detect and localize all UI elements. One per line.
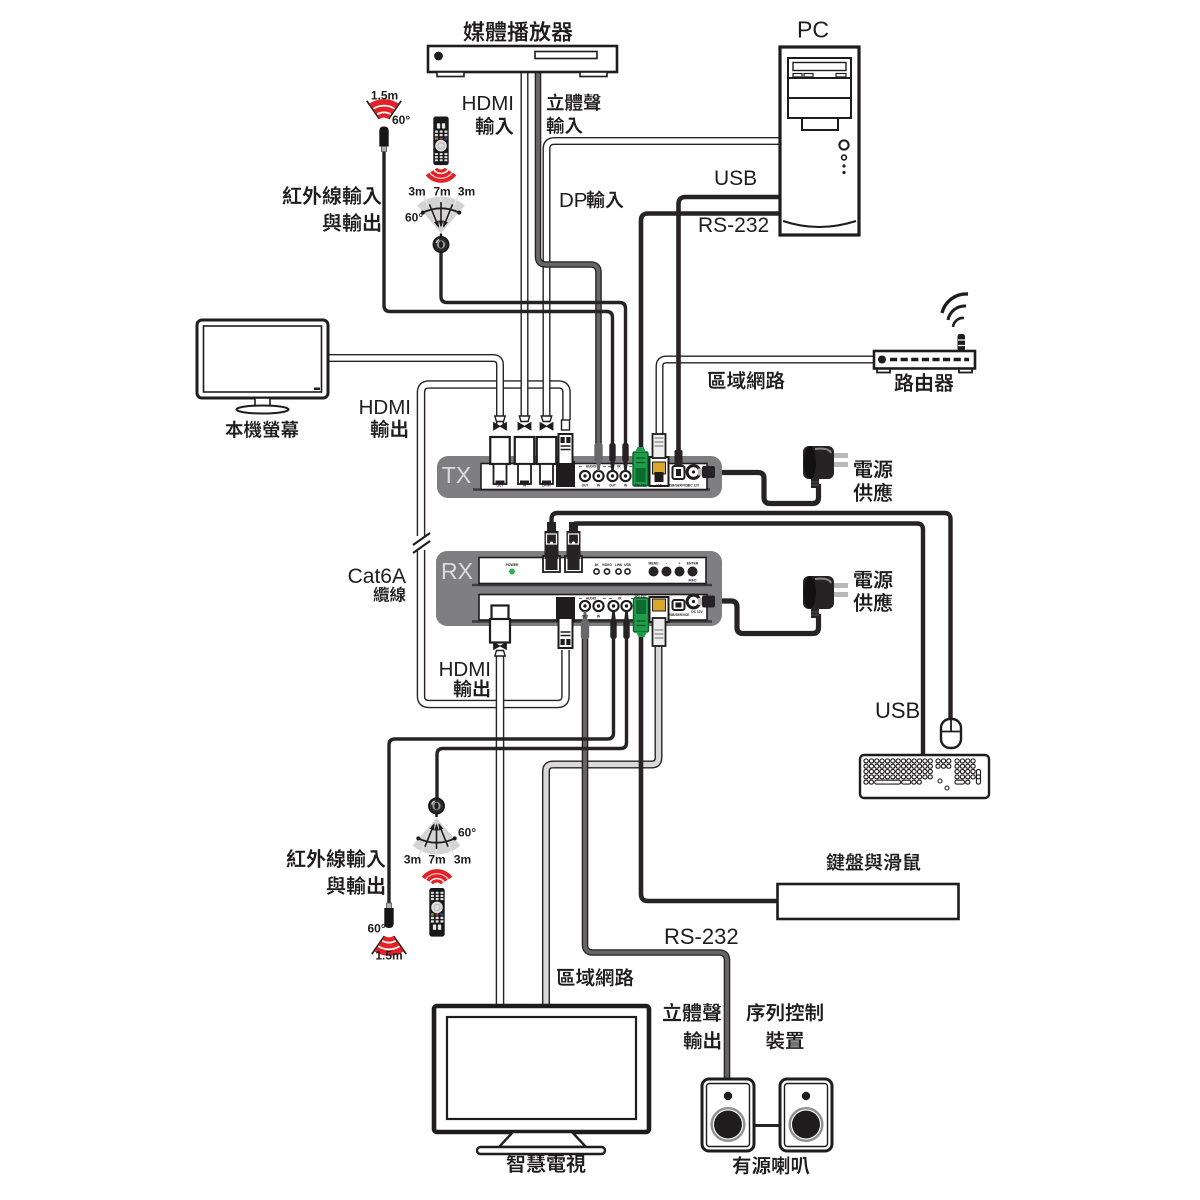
TX audio IN jack with plug <box>593 471 603 481</box>
svg-text:RS-232: RS-232 <box>664 924 739 949</box>
svg-text:+: + <box>679 562 681 566</box>
wire LAN TX to router <box>660 360 876 435</box>
svg-text:ENTER: ENTER <box>687 562 699 566</box>
TX audio OUT jack <box>580 471 590 481</box>
svg-text:60°: 60° <box>405 211 423 225</box>
RX IR IN jack with plug <box>621 601 631 611</box>
wire stereo output to speakers <box>585 634 727 1080</box>
label local monitor <box>226 421 243 438</box>
svg-text:VIDEO: VIDEO <box>602 563 612 567</box>
wire Cat6A link TX to RX <box>421 385 567 705</box>
svg-text:60°: 60° <box>458 826 476 840</box>
TX panel <box>473 488 710 491</box>
TX Cat6A OUT port and plug <box>556 420 575 487</box>
RX rear panel <box>472 620 712 623</box>
svg-text:OUT: OUT <box>582 615 589 619</box>
svg-text:MENU: MENU <box>649 562 660 566</box>
svg-text:AUDIO: AUDIO <box>586 465 597 469</box>
wire RS-232 RX to serial control device <box>641 635 778 901</box>
svg-text:OUT: OUT <box>609 484 616 488</box>
label IR in/out bottom <box>287 849 306 867</box>
svg-text:LINK: LINK <box>615 563 623 567</box>
top IR receiver <box>433 234 448 253</box>
RX RS-232 terminal block <box>634 598 649 637</box>
svg-text:-: - <box>666 562 667 566</box>
PC tower <box>780 47 859 235</box>
wire DP input from PC <box>547 141 780 420</box>
RX audio IN jack <box>593 601 603 611</box>
svg-text:INFO: INFO <box>688 579 696 583</box>
svg-text:7m: 7m <box>428 853 445 867</box>
svg-text:1.5m: 1.5m <box>371 89 398 103</box>
TX power adapter <box>803 446 848 488</box>
svg-text:USB: USB <box>624 563 631 567</box>
wire USB RX to mouse <box>552 513 951 721</box>
wire IR receiver to TX IR IN <box>441 250 626 446</box>
wire RX IR IN from bottom receiver <box>437 635 627 800</box>
svg-text:DP/IN: DP/IN <box>542 484 551 488</box>
wifi router <box>874 334 975 373</box>
wire stereo input from media player <box>538 71 599 448</box>
local monitor <box>197 320 328 414</box>
RX Cat6A port and plug <box>556 597 575 648</box>
svg-text:PC: PC <box>797 17 829 43</box>
serial control device box <box>778 884 959 919</box>
TX IR IN jack with plug <box>620 471 630 481</box>
TX HDMI IN plug <box>515 416 535 484</box>
TX IR OUT jack with plug <box>607 471 617 481</box>
RX USB plug 1 <box>543 522 560 572</box>
media player box <box>428 46 617 77</box>
svg-text:USB: USB <box>714 167 757 190</box>
svg-text:OUT: OUT <box>497 484 504 488</box>
wire RX IR OUT to bottom emitter <box>389 635 614 906</box>
mouse <box>941 719 961 748</box>
label active speakers <box>733 1156 751 1174</box>
svg-text:DC 12V: DC 12V <box>688 484 700 488</box>
wire LAN RX to TV <box>546 645 659 1008</box>
svg-text:OUT: OUT <box>582 484 589 488</box>
label stereo input <box>547 93 564 110</box>
svg-text:USB: USB <box>875 698 920 723</box>
svg-text:7m: 7m <box>433 185 450 199</box>
bottom gray receiver fan <box>413 818 461 854</box>
RX DC 12V jack with plug <box>687 595 715 608</box>
TX RS-232 terminal block <box>633 447 648 486</box>
RX HDMI OUT port and plug <box>490 606 510 657</box>
label smart TV <box>507 1154 525 1173</box>
label keyboard mouse <box>827 853 845 871</box>
svg-text:CAT6A/OUT: CAT6A/OUT <box>556 484 574 488</box>
RX power adapter <box>803 576 848 618</box>
svg-text:3m: 3m <box>458 185 475 199</box>
svg-text:3m: 3m <box>454 853 471 867</box>
smart TV <box>434 1006 649 1154</box>
wire RS-232 from PC to TX <box>641 214 779 453</box>
top remote IR waves <box>427 169 454 181</box>
top remote control <box>433 117 448 166</box>
wire HDMI output RX to TV <box>496 653 505 1008</box>
RX buttons <box>649 562 699 583</box>
cable break marks on Cat6A run <box>412 533 430 553</box>
svg-text:RS-232: RS-232 <box>698 214 769 237</box>
svg-text:RS-232: RS-232 <box>635 484 646 488</box>
bottom IR receiver <box>429 798 444 817</box>
top IR emitter <box>379 127 388 152</box>
svg-text:DC 12V: DC 12V <box>691 610 703 614</box>
RX USB service port <box>673 600 685 610</box>
wire USB from PC to TX <box>679 197 780 450</box>
label LAN bottom <box>557 969 575 986</box>
svg-text:RX: RX <box>441 558 473 584</box>
TX port labels <box>497 465 700 488</box>
RX audio OUT jack with plug <box>580 601 590 611</box>
TX unit body <box>437 456 722 498</box>
svg-text:HDMI: HDMI <box>439 658 491 681</box>
wire HDMI input from media player <box>521 71 529 420</box>
wire TX power cable <box>712 473 819 504</box>
label serial control device <box>746 1003 764 1021</box>
router wifi waves <box>942 294 968 327</box>
bottom IR emitter red fan <box>372 936 406 954</box>
svg-text:3m: 3m <box>408 185 425 199</box>
RX USB plug 2 <box>565 522 582 572</box>
TX HDMI OUT plug <box>490 416 510 484</box>
bottom IR emitter <box>384 903 393 928</box>
bottom remote IR waves <box>423 871 450 883</box>
svg-text:POWER: POWER <box>506 563 519 567</box>
active speaker left <box>702 1079 754 1151</box>
wire RX power cable <box>712 601 819 634</box>
label TX power supply <box>854 460 872 478</box>
top gray receiver fan <box>417 197 465 233</box>
svg-text:HDMI: HDMI <box>462 92 514 115</box>
svg-text:USB/SERVICE: USB/SERVICE <box>668 484 690 488</box>
label IR in/out top <box>283 186 302 204</box>
bottom remote control <box>429 888 444 937</box>
svg-text:AUDIO: AUDIO <box>586 597 597 601</box>
svg-text:TX: TX <box>442 462 471 488</box>
keyboard <box>860 755 989 798</box>
wire HDMI out to local monitor <box>328 358 500 428</box>
svg-text:60°: 60° <box>368 922 386 936</box>
svg-text:DP: DP <box>559 189 587 212</box>
svg-text:4K: 4K <box>594 563 599 567</box>
svg-text:3m: 3m <box>404 853 421 867</box>
wire USB RX to keyboard <box>574 524 924 758</box>
speaker link wire <box>754 1124 781 1127</box>
RX IR OUT jack with plug <box>608 601 618 611</box>
top IR emitter red fan <box>367 101 401 119</box>
active speaker right <box>780 1079 832 1151</box>
RX port labels <box>582 595 704 619</box>
RX status LEDs <box>594 563 631 567</box>
label LAN top <box>708 372 726 389</box>
label router <box>895 373 914 392</box>
wire IR emitter to TX IR OUT <box>384 148 613 446</box>
RX unit body <box>436 551 722 626</box>
TX DP IN plug <box>537 416 557 484</box>
label stereo output <box>663 1003 681 1021</box>
label media player <box>463 21 484 42</box>
TX LAN port with plug <box>650 434 669 486</box>
RX LAN port with plug <box>650 597 669 646</box>
svg-text:60°: 60° <box>392 113 410 127</box>
svg-text:HDMI: HDMI <box>359 396 411 419</box>
svg-text:USB/SERVICE: USB/SERVICE <box>668 613 690 617</box>
svg-text:RS-232: RS-232 <box>635 595 646 599</box>
svg-text:LAN: LAN <box>656 484 663 488</box>
svg-text:Cat6A: Cat6A <box>348 565 406 588</box>
svg-text:1.5m: 1.5m <box>375 949 402 963</box>
RX front panel <box>472 584 712 587</box>
TX DC 12V jack with plug <box>687 466 715 479</box>
TX USB service port with plug <box>673 450 685 479</box>
label RX power supply <box>854 571 872 589</box>
